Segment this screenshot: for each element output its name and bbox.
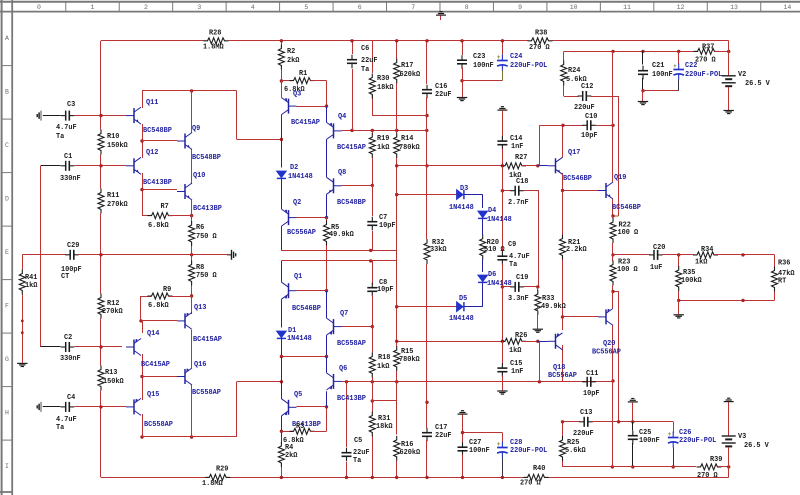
- svg-text:C20: C20: [653, 244, 665, 252]
- svg-text:330nF: 330nF: [60, 355, 81, 363]
- svg-text:C23: C23: [473, 53, 485, 61]
- svg-text:1N4148: 1N4148: [449, 315, 474, 323]
- svg-text:22uF: 22uF: [361, 57, 378, 65]
- svg-text:Q16: Q16: [194, 361, 206, 369]
- svg-text:Q3: Q3: [293, 91, 301, 99]
- svg-text:BC548BP: BC548BP: [192, 154, 221, 162]
- svg-text:5: 5: [304, 4, 308, 11]
- svg-text:R29: R29: [216, 466, 228, 474]
- svg-text:Q2: Q2: [293, 199, 301, 207]
- svg-text:+: +: [497, 441, 501, 448]
- svg-text:D4: D4: [488, 207, 496, 215]
- svg-text:100kΩ: 100kΩ: [681, 277, 702, 285]
- svg-text:1N4148: 1N4148: [449, 204, 474, 212]
- svg-text:+: +: [497, 54, 501, 61]
- svg-text:BC415AP: BC415AP: [337, 144, 366, 152]
- svg-text:R24: R24: [568, 67, 580, 75]
- svg-text:BC556AP: BC556AP: [287, 229, 316, 237]
- svg-text:BC415AP: BC415AP: [141, 361, 170, 369]
- svg-text:D: D: [5, 196, 9, 203]
- svg-text:R34: R34: [701, 246, 713, 254]
- svg-text:1N4148: 1N4148: [288, 173, 313, 181]
- svg-text:1nF: 1nF: [511, 143, 523, 151]
- svg-text:BC558AP: BC558AP: [337, 340, 366, 348]
- svg-text:C6: C6: [361, 45, 369, 53]
- svg-text:BC413BP: BC413BP: [143, 179, 172, 187]
- svg-text:Q12: Q12: [146, 149, 158, 157]
- svg-text:+: +: [673, 63, 677, 70]
- svg-text:0: 0: [37, 4, 41, 11]
- svg-text:1kΩ: 1kΩ: [509, 347, 521, 355]
- svg-text:2kΩ: 2kΩ: [285, 452, 297, 460]
- svg-text:C16: C16: [435, 83, 447, 91]
- svg-text:C11: C11: [586, 370, 598, 378]
- svg-text:22uF: 22uF: [435, 91, 452, 99]
- svg-text:C29: C29: [67, 242, 79, 250]
- svg-text:1kΩ: 1kΩ: [25, 282, 37, 290]
- svg-text:C15: C15: [510, 360, 522, 368]
- svg-text:C26: C26: [679, 429, 691, 437]
- svg-text:4.7uF: 4.7uF: [56, 124, 77, 132]
- svg-text:1kΩ: 1kΩ: [377, 144, 389, 152]
- svg-text:BC556AP: BC556AP: [592, 349, 621, 357]
- svg-text:18kΩ: 18kΩ: [377, 84, 394, 92]
- svg-text:Q8: Q8: [338, 169, 346, 177]
- svg-text:C9: C9: [508, 241, 516, 249]
- svg-text:C10: C10: [585, 113, 597, 121]
- svg-text:R3: R3: [296, 423, 304, 431]
- svg-text:49.9kΩ: 49.9kΩ: [541, 303, 566, 311]
- svg-text:220uF-POL: 220uF-POL: [510, 447, 547, 455]
- svg-text:R1: R1: [299, 70, 307, 78]
- svg-text:Q1: Q1: [294, 273, 302, 281]
- svg-text:1.8MΩ: 1.8MΩ: [203, 44, 224, 52]
- svg-text:R41: R41: [25, 274, 37, 282]
- svg-text:220uF: 220uF: [574, 104, 595, 112]
- svg-text:9: 9: [518, 4, 522, 11]
- svg-text:620kΩ: 620kΩ: [400, 71, 421, 79]
- svg-text:100nF: 100nF: [652, 71, 673, 79]
- svg-text:C24: C24: [510, 53, 522, 61]
- svg-text:100nF: 100nF: [639, 437, 660, 445]
- svg-text:Q6: Q6: [339, 365, 347, 373]
- svg-text:220uF-POL: 220uF-POL: [679, 437, 716, 445]
- svg-text:510 Ω: 510 Ω: [484, 246, 505, 254]
- svg-text:4: 4: [251, 4, 255, 11]
- svg-text:R33: R33: [542, 295, 554, 303]
- svg-text:22uF: 22uF: [353, 449, 370, 457]
- svg-text:R14: R14: [401, 135, 413, 143]
- svg-text:F: F: [5, 303, 9, 310]
- svg-text:R9: R9: [163, 286, 171, 294]
- svg-text:V3: V3: [738, 433, 746, 441]
- svg-text:150kΩ: 150kΩ: [107, 142, 128, 150]
- svg-text:D5: D5: [459, 295, 467, 303]
- svg-text:BC415AP: BC415AP: [291, 119, 320, 127]
- svg-text:Ta: Ta: [509, 261, 517, 269]
- svg-text:4.7uF: 4.7uF: [509, 253, 530, 261]
- svg-text:R2: R2: [287, 48, 295, 56]
- svg-text:10pF: 10pF: [379, 222, 396, 230]
- svg-text:1.8MΩ: 1.8MΩ: [202, 480, 223, 488]
- svg-text:Q15: Q15: [147, 391, 159, 399]
- svg-text:R8: R8: [196, 264, 204, 272]
- svg-text:D3: D3: [460, 185, 468, 193]
- svg-text:G: G: [5, 356, 9, 363]
- svg-text:270kΩ: 270kΩ: [107, 201, 128, 209]
- svg-text:R4: R4: [285, 444, 293, 452]
- svg-text:Ta: Ta: [56, 424, 64, 432]
- svg-text:6.8kΩ: 6.8kΩ: [148, 222, 169, 230]
- svg-text:R28: R28: [209, 30, 221, 38]
- svg-text:26.5 V: 26.5 V: [744, 442, 770, 450]
- svg-text:13: 13: [730, 4, 738, 11]
- svg-text:270kΩ: 270kΩ: [102, 308, 123, 316]
- svg-text:1uF: 1uF: [650, 264, 662, 272]
- svg-text:E: E: [5, 249, 9, 256]
- svg-text:C4: C4: [67, 394, 75, 402]
- svg-text:Q10: Q10: [193, 172, 205, 180]
- svg-text:5.6kΩ: 5.6kΩ: [565, 447, 586, 455]
- svg-text:1N4148: 1N4148: [487, 280, 512, 288]
- svg-text:+: +: [668, 431, 672, 438]
- svg-text:100 Ω: 100 Ω: [617, 266, 638, 274]
- svg-text:750 Ω: 750 Ω: [196, 233, 217, 241]
- svg-text:620kΩ: 620kΩ: [400, 449, 421, 457]
- svg-text:R7: R7: [161, 203, 169, 211]
- svg-text:A: A: [5, 35, 9, 42]
- svg-text:H: H: [5, 410, 9, 417]
- svg-text:R11: R11: [107, 192, 119, 200]
- svg-text:14: 14: [784, 4, 792, 11]
- svg-text:C5: C5: [354, 437, 362, 445]
- svg-text:3: 3: [197, 4, 201, 11]
- svg-text:2: 2: [144, 4, 148, 11]
- svg-text:C7: C7: [379, 214, 387, 222]
- svg-text:R36: R36: [778, 260, 790, 268]
- svg-text:BC546BP: BC546BP: [612, 204, 641, 212]
- svg-text:D6: D6: [488, 271, 496, 279]
- svg-text:R38: R38: [535, 30, 547, 38]
- svg-text:150kΩ: 150kΩ: [103, 378, 124, 386]
- svg-text:1: 1: [91, 4, 95, 11]
- svg-text:Q7: Q7: [340, 310, 348, 318]
- svg-text:220uF: 220uF: [573, 430, 594, 438]
- svg-text:BC546BP: BC546BP: [563, 175, 592, 183]
- svg-text:BC548BP: BC548BP: [337, 199, 366, 207]
- svg-text:1N4148: 1N4148: [487, 216, 512, 224]
- svg-text:BC558AP: BC558AP: [192, 389, 221, 397]
- svg-text:18kΩ: 18kΩ: [376, 423, 393, 431]
- svg-text:330nF: 330nF: [60, 175, 81, 183]
- svg-text:BC548BP: BC548BP: [143, 127, 172, 135]
- svg-text:CT: CT: [61, 273, 69, 281]
- svg-text:26.5 V: 26.5 V: [745, 80, 771, 88]
- svg-text:BC415AP: BC415AP: [193, 336, 222, 344]
- svg-text:1kΩ: 1kΩ: [377, 363, 389, 371]
- svg-text:12: 12: [677, 4, 685, 11]
- svg-text:R18: R18: [378, 354, 390, 362]
- svg-text:Q4: Q4: [338, 113, 346, 121]
- svg-text:4.7uF: 4.7uF: [56, 416, 77, 424]
- svg-text:C18: C18: [516, 178, 528, 186]
- svg-text:R16: R16: [401, 441, 413, 449]
- svg-text:10: 10: [570, 4, 578, 11]
- svg-text:Q18: Q18: [553, 364, 565, 372]
- svg-text:6.8kΩ: 6.8kΩ: [148, 302, 169, 310]
- svg-text:780kΩ: 780kΩ: [399, 356, 420, 364]
- svg-text:C27: C27: [469, 439, 481, 447]
- svg-text:100 Ω: 100 Ω: [618, 229, 639, 237]
- svg-text:10pF: 10pF: [583, 390, 600, 398]
- svg-text:B: B: [5, 89, 9, 96]
- svg-text:49.9kΩ: 49.9kΩ: [329, 231, 354, 239]
- svg-text:C1: C1: [64, 153, 72, 161]
- svg-text:R12: R12: [107, 300, 119, 308]
- svg-text:Ta: Ta: [56, 133, 64, 141]
- svg-text:C14: C14: [510, 135, 522, 143]
- svg-text:C17: C17: [435, 424, 447, 432]
- svg-text:I: I: [5, 463, 9, 470]
- svg-text:R31: R31: [378, 415, 390, 423]
- svg-text:R37: R37: [702, 44, 714, 52]
- svg-text:2.2kΩ: 2.2kΩ: [566, 246, 587, 254]
- svg-text:R35: R35: [683, 269, 695, 277]
- svg-text:220uF-POL: 220uF-POL: [510, 62, 547, 70]
- svg-text:C3: C3: [67, 101, 75, 109]
- svg-text:R10: R10: [107, 133, 119, 141]
- svg-text:780kΩ: 780kΩ: [399, 144, 420, 152]
- svg-text:R15: R15: [401, 348, 413, 356]
- svg-text:D2: D2: [290, 164, 298, 172]
- svg-text:270 Ω: 270 Ω: [697, 472, 718, 480]
- svg-text:100nF: 100nF: [469, 447, 490, 455]
- svg-text:1nF: 1nF: [511, 368, 523, 376]
- svg-text:10pF: 10pF: [581, 132, 598, 140]
- svg-text:R13: R13: [105, 369, 117, 377]
- svg-text:C2: C2: [64, 334, 72, 342]
- svg-text:BC546BP: BC546BP: [292, 305, 321, 313]
- svg-text:R40: R40: [533, 465, 545, 473]
- svg-text:Q19: Q19: [614, 174, 626, 182]
- svg-text:2.7nF: 2.7nF: [508, 199, 529, 207]
- svg-text:270 Ω: 270 Ω: [529, 44, 550, 52]
- svg-text:Q20: Q20: [603, 340, 615, 348]
- svg-text:22uF: 22uF: [435, 432, 452, 440]
- svg-text:33kΩ: 33kΩ: [430, 246, 447, 254]
- svg-text:8: 8: [465, 4, 469, 11]
- svg-text:Q13: Q13: [194, 304, 206, 312]
- svg-text:2kΩ: 2kΩ: [287, 57, 299, 65]
- svg-text:3.3nF: 3.3nF: [508, 295, 529, 303]
- svg-text:RT: RT: [778, 278, 786, 286]
- svg-text:10pF: 10pF: [377, 286, 394, 294]
- svg-text:BC556AP: BC556AP: [548, 372, 577, 380]
- svg-text:BC413BP: BC413BP: [193, 205, 222, 213]
- svg-text:1kΩ: 1kΩ: [695, 259, 707, 267]
- svg-text:6: 6: [358, 4, 362, 11]
- svg-text:R26: R26: [515, 332, 527, 340]
- svg-text:1N4148: 1N4148: [287, 335, 312, 343]
- svg-text:Ta: Ta: [361, 66, 369, 74]
- svg-text:Q17: Q17: [568, 149, 580, 157]
- svg-text:C28: C28: [510, 439, 522, 447]
- svg-text:R6: R6: [196, 224, 204, 232]
- svg-text:C19: C19: [516, 274, 528, 282]
- svg-text:100nF: 100nF: [473, 62, 494, 70]
- svg-text:750 Ω: 750 Ω: [196, 272, 217, 280]
- svg-text:11: 11: [623, 4, 631, 11]
- svg-text:270 Ω: 270 Ω: [695, 57, 716, 65]
- svg-text:V2: V2: [738, 71, 746, 79]
- svg-text:C22: C22: [685, 62, 697, 70]
- svg-text:R30: R30: [377, 75, 389, 83]
- svg-text:220uF-POL: 220uF-POL: [685, 71, 722, 79]
- svg-text:C25: C25: [639, 429, 651, 437]
- svg-text:BC413BP: BC413BP: [337, 395, 366, 403]
- svg-text:R27: R27: [515, 154, 527, 162]
- svg-text:Q9: Q9: [192, 125, 200, 133]
- svg-text:Ta: Ta: [353, 457, 361, 465]
- svg-text:R25: R25: [567, 439, 579, 447]
- svg-text:C21: C21: [652, 62, 664, 70]
- svg-text:C: C: [5, 142, 9, 149]
- svg-text:Q5: Q5: [294, 391, 302, 399]
- svg-text:R19: R19: [377, 135, 389, 143]
- svg-text:C13: C13: [580, 409, 592, 417]
- svg-text:R17: R17: [401, 62, 413, 70]
- svg-text:7: 7: [411, 4, 415, 11]
- svg-text:270 Ω: 270 Ω: [520, 480, 541, 488]
- svg-text:BC558AP: BC558AP: [144, 421, 173, 429]
- svg-text:Q11: Q11: [146, 99, 158, 107]
- svg-text:D1: D1: [288, 327, 296, 335]
- svg-text:C12: C12: [581, 83, 593, 91]
- svg-text:R39: R39: [710, 456, 722, 464]
- svg-text:Q14: Q14: [147, 330, 159, 338]
